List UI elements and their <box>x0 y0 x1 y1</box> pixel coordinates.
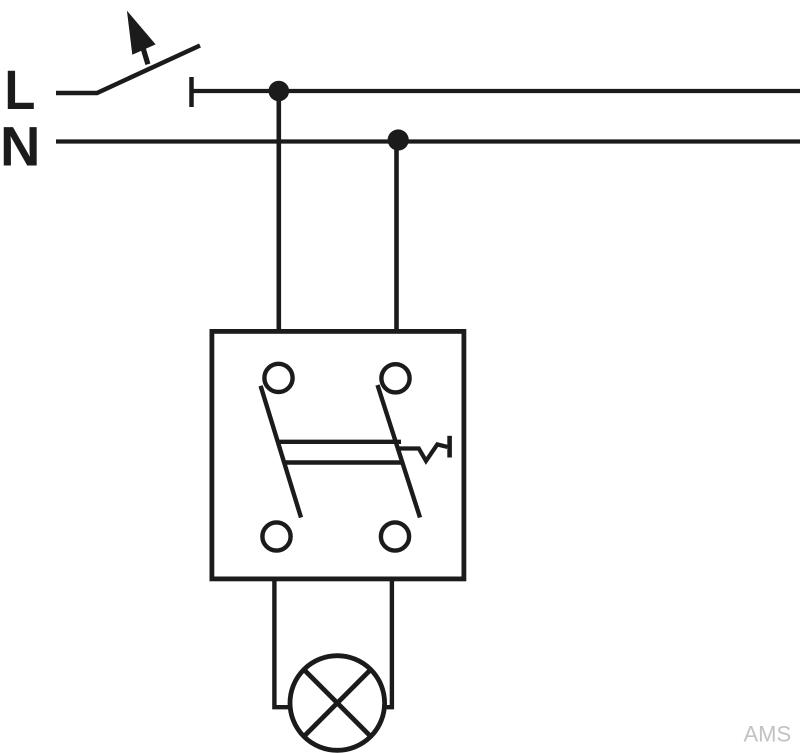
rocker contact bar left <box>261 386 301 518</box>
push actuator linkage (zigzag) <box>398 444 448 461</box>
svg-text:AMS: AMS <box>744 722 792 747</box>
lamp E1 cross stroke 2 <box>304 670 371 737</box>
switch fixed contact tick <box>189 77 194 107</box>
terminal circle bottom-left <box>262 522 290 550</box>
lamp E1 cross stroke 1 <box>304 670 371 737</box>
wire from N node down to switch box <box>394 140 399 331</box>
wire box to lamp right <box>384 579 392 707</box>
push actuator end bar <box>447 436 452 458</box>
lamp E1 circle <box>290 656 385 751</box>
wire L bus <box>194 89 800 93</box>
junction node on L <box>269 81 290 102</box>
svg-text:N: N <box>0 114 40 177</box>
junction node on N <box>388 129 409 150</box>
cursor arrow (actuation pointer) <box>127 11 156 65</box>
wire N bus <box>56 139 800 143</box>
switch box outline <box>212 331 464 579</box>
terminal circle top-right <box>381 364 409 392</box>
wire box to lamp left <box>274 579 290 707</box>
rocker contact bar right <box>378 385 421 518</box>
terminal circle top-left <box>264 364 292 392</box>
coupling bar lower <box>284 460 401 464</box>
svg-text:L: L <box>4 58 35 121</box>
terminal circle bottom-right <box>381 522 409 550</box>
wire L lead-in and switch lever S1 <box>56 46 200 94</box>
wire from L node down to switch box <box>276 91 281 331</box>
coupling bar upper <box>278 440 402 444</box>
